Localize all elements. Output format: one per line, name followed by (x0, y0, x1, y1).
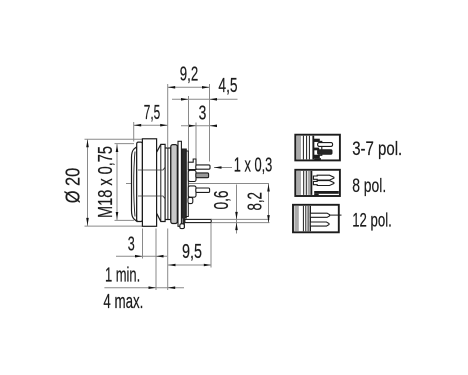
svg-text:3: 3 (199, 102, 207, 124)
extension line x=196 (195, 123, 197, 162)
dim 8,2 line (267, 184, 270, 223)
extension x=168.2 down (167, 229, 169, 291)
leader 1x0,3 (214, 166, 232, 169)
extension x=142.5 down (142, 229, 144, 259)
dim dia20 extension lines (85, 138, 143, 140)
body: rear strip (178, 141, 181, 226)
box1 cup column (314, 141, 322, 155)
box1 knurl lines (302, 136, 304, 160)
box1 pin top (white) (318, 143, 333, 147)
dim dia20 line (86, 139, 89, 226)
symbol box 1 (3-7 pol) (295, 135, 340, 161)
dome thread line (134, 152, 135, 217)
box2 pin 1 bullet (313, 175, 333, 180)
pin 2 cup (188, 170, 196, 181)
svg-text:M18 x 0,75: M18 x 0,75 (95, 146, 117, 218)
svg-text:12 pol.: 12 pol. (352, 211, 392, 232)
dim 4,5 line (172, 98, 238, 101)
box3 knurl gray band (294, 206, 298, 231)
body: mid washers (165, 148, 171, 220)
extension line pin tip x=209.5 (209, 84, 211, 162)
body: black strip (182, 149, 187, 218)
dim 9,5 (168, 264, 211, 267)
bracket arm (182, 209, 185, 228)
svg-text:7,5: 7,5 (144, 102, 160, 124)
dim 3 bottom (116, 255, 167, 258)
body: front nut M18 (137, 142, 143, 221)
body: insulator strip (186, 151, 188, 217)
svg-text:9,5: 9,5 (182, 241, 202, 263)
1 min / 4 max divider line (104, 286, 184, 289)
box1 pin bottom (dark) (318, 150, 332, 154)
box1 knurl gray band (296, 136, 301, 160)
body: grip cone disc (157, 144, 166, 221)
body: barrel tip (132, 147, 137, 221)
hex flat line top (138, 167, 165, 170)
pin 3 cup (188, 186, 196, 197)
svg-text:Ø 20: Ø 20 (63, 168, 85, 204)
pin 1 (196, 165, 210, 169)
svg-text:8,2: 8,2 (245, 192, 267, 211)
dim 7,5 line (134, 124, 168, 127)
box3 pin 2 (310, 222, 329, 226)
symbol box 2 (8 pol) (295, 170, 340, 196)
washer split line (167, 148, 169, 220)
extension x=210.4 down (210, 223, 212, 268)
box2 zone divider (311, 171, 313, 195)
svg-text:8 pol.: 8 pol. (352, 176, 386, 197)
box2 bottom bar (314, 191, 339, 194)
extension line nut front x=133.7 (133, 122, 135, 142)
dim 0,6 line (235, 185, 238, 234)
svg-text:1 min.: 1 min. (105, 264, 140, 286)
bracket extension lines (211, 218, 269, 220)
bracket foot (180, 224, 184, 229)
box2 bottom nub (314, 194, 319, 196)
pin 2 (196, 173, 209, 178)
symbol box 3 (12 pol) (293, 205, 342, 233)
extension x=157 down long (155, 229, 157, 291)
svg-text:3-7 pol.: 3-7 pol. (352, 139, 402, 160)
box2 knurl gray band (296, 171, 301, 195)
bracket plate (185, 219, 211, 222)
dim M18x0,75 line (116, 144, 119, 221)
box3 pin 1 leader line (330, 214, 342, 216)
pin 4 lug cup (188, 197, 193, 203)
box2 knurl gray band 2 (308, 171, 311, 195)
dim M18 extension lines (115, 143, 135, 145)
box2 pin 2 bullet (313, 181, 333, 186)
dim 3 top line (181, 125, 217, 128)
box2 knurl lines (303, 171, 305, 195)
body: flange (142, 139, 156, 227)
dim 9,2 line (168, 86, 210, 89)
box1 blob mid (313, 148, 319, 151)
box1 blob bottom (314, 155, 320, 158)
extension line insulator face x=188.5 (188, 96, 190, 162)
box1 blob top (314, 139, 320, 142)
box3 zone divider (309, 206, 311, 231)
centerline (126, 183, 269, 185)
hex flat line bottom (138, 196, 165, 199)
svg-text:9,2: 9,2 (180, 64, 198, 86)
svg-text:4,5: 4,5 (218, 75, 237, 97)
svg-text:4 max.: 4 max. (103, 291, 143, 313)
svg-text:0,6: 0,6 (211, 191, 233, 210)
pin 1 cup (188, 159, 196, 170)
pin 3 (196, 188, 210, 192)
body: rear nut (171, 145, 178, 224)
svg-text:1 x 0,3: 1 x 0,3 (234, 155, 272, 177)
box3 knurl lines (302, 206, 304, 231)
box3 pin 1 (310, 213, 329, 217)
extension line mounting face x=167.7 (167, 84, 169, 147)
box1 bottom bar (314, 158, 321, 160)
svg-text:3: 3 (128, 233, 135, 255)
grip cone inner line (160, 144, 162, 221)
box1 zone divider (312, 136, 314, 160)
